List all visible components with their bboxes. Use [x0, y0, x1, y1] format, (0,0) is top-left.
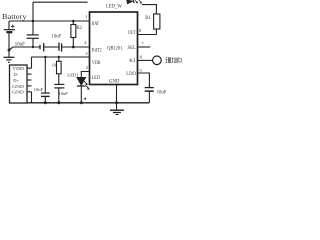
svg-text:K1: K1 [129, 58, 136, 64]
wire riser to top rail [32, 2, 34, 21]
label Battery [2, 14, 27, 21]
svg-text:LED_W: LED_W [106, 4, 122, 9]
battery BT1 [4, 21, 15, 50]
node junction top rail riser [32, 20, 35, 23]
node C1 bottom junction [32, 46, 34, 48]
svg-text:6: 6 [140, 55, 143, 60]
ground battery [4, 50, 15, 62]
svg-text:LED: LED [92, 75, 100, 81]
wire chip GND pin down [116, 85, 118, 110]
wire bottom ground rail [27, 102, 149, 104]
pin VDD stub [27, 67, 32, 69]
svg-text:R1: R1 [145, 16, 151, 21]
wire LED_W cathode to R1 [142, 5, 156, 14]
svg-text:LDO: LDO [126, 71, 136, 77]
svg-text:VDD: VDD [12, 66, 23, 71]
capacitor C3 10uF [52, 35, 90, 52]
wire top rail [33, 1, 88, 3]
svg-text:7: 7 [142, 41, 145, 46]
svg-text:Battery: Battery [2, 14, 27, 21]
wire pin 7 SEL stub [138, 46, 151, 48]
op-amp U1 QB1201 chip body [90, 12, 138, 85]
wire VDD riser to VDB rail [31, 57, 33, 68]
pin GND stub [27, 85, 32, 87]
svg-text:GND: GND [12, 90, 23, 95]
svg-text:10uF: 10uF [58, 91, 68, 96]
svg-text:10uF: 10uF [52, 35, 62, 40]
svg-text:SEL: SEL [128, 45, 137, 51]
wire main positive rail to pin 1 [9, 20, 90, 22]
svg-text:3: 3 [85, 51, 88, 56]
capacitor C4 10uF [34, 57, 50, 103]
svg-text:5: 5 [140, 68, 143, 73]
svg-text:D+: D+ [13, 78, 19, 83]
label U1 pin names [92, 21, 136, 85]
svg-text:GND: GND [12, 84, 23, 89]
node rail junction C4 [44, 101, 47, 104]
svg-text:BAT2: BAT2 [92, 47, 102, 53]
ground chip [110, 110, 124, 114]
label touch point glyphs [165, 57, 182, 63]
svg-text:LED1: LED1 [67, 73, 79, 78]
svg-text:4: 4 [84, 40, 87, 45]
wire battery negative branch [9, 47, 40, 50]
node junction R2 top [72, 20, 75, 23]
wire pin 5 LDO to C6 [138, 73, 150, 87]
svg-text:8: 8 [139, 28, 142, 33]
LED LED1 [67, 73, 89, 103]
svg-text:D-: D- [14, 72, 19, 77]
pin D- stub [27, 73, 32, 75]
svg-text:10uF: 10uF [15, 43, 25, 48]
capacitor C2 [40, 43, 59, 52]
pin D+ stub [27, 79, 32, 81]
svg-text:BAT: BAT [92, 21, 100, 27]
capacitor C6 10uF [145, 88, 167, 103]
wire R1 to pin 8 OUT [138, 34, 157, 36]
node rail junction LED1 [80, 101, 83, 104]
svg-text:VDB: VDB [92, 60, 101, 66]
label pin numbers [84, 14, 144, 73]
node rail junction C5 [57, 101, 60, 104]
node battery negative junction [8, 49, 11, 52]
capacitor C5 10uF [54, 84, 68, 102]
label LED_W [106, 4, 122, 9]
wire pin 2 LED to LED1 [81, 72, 89, 78]
resistor R3 10 [52, 57, 61, 84]
svg-text:R2: R2 [76, 26, 82, 31]
node VDB rail junction C4 [44, 56, 46, 58]
touch pad circle [153, 56, 162, 65]
wire pin 6 K1 to touch pad [138, 59, 153, 61]
svg-text:1: 1 [85, 14, 88, 19]
node VDB rail junction R3 [58, 56, 60, 58]
svg-text:10uF: 10uF [157, 91, 167, 96]
svg-text:2: 2 [86, 65, 89, 70]
capacitor C1 10uF [15, 21, 39, 48]
wire VDB rail [32, 56, 90, 58]
resistor R1 [145, 14, 160, 35]
LED LED_W [127, 0, 143, 4]
svg-text:OUT: OUT [128, 30, 136, 36]
wire GND2 drop to rail [31, 92, 33, 103]
svg-text:QB1201: QB1201 [107, 45, 122, 51]
connector J1 USB [10, 65, 32, 103]
resistor R2 [71, 21, 83, 47]
node rail junction GND pin [115, 101, 118, 104]
svg-text:GND: GND [109, 78, 119, 84]
node R2 bottom junction [72, 46, 75, 49]
pin GND2 stub [27, 91, 32, 93]
svg-text:10uF: 10uF [34, 87, 44, 92]
